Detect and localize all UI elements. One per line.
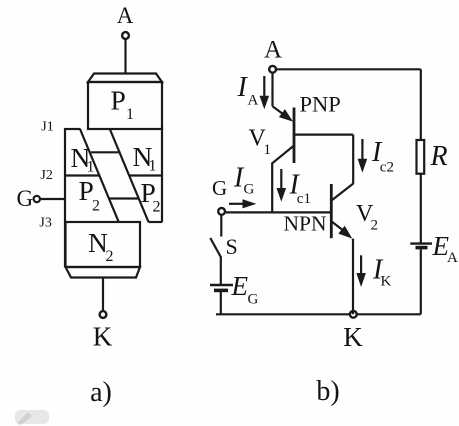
label R: [430, 141, 448, 172]
svg-text:2: 2: [106, 248, 114, 265]
svg-text:K: K: [93, 322, 113, 352]
junction J2 line right: [130, 174, 162, 176]
wire G to switch: [220, 215, 222, 236]
node A label (fig a): [117, 3, 134, 28]
middle section top-left edge: [65, 128, 81, 130]
svg-text:J3: J3: [39, 216, 51, 231]
svg-text:A: A: [248, 92, 259, 108]
caption b): [316, 376, 339, 407]
node G label (fig a): [17, 186, 34, 211]
svg-text:A: A: [264, 37, 282, 64]
terminal circle G (fig b): [218, 208, 225, 215]
svg-text:R: R: [430, 141, 448, 172]
transistor V2 base bar: [330, 184, 333, 238]
svg-text:1: 1: [264, 142, 272, 158]
junction label J2: [40, 168, 52, 183]
label N1 left: [71, 142, 95, 176]
svg-text:2: 2: [371, 218, 379, 234]
wire gate to V2 base: [226, 211, 331, 213]
label P2 right: [141, 177, 161, 216]
wire cathode lead (fig a): [102, 278, 104, 311]
svg-text:G: G: [212, 176, 227, 200]
label S: [226, 234, 238, 259]
current IG label: [233, 163, 255, 198]
label N1 right: [133, 141, 157, 175]
diagonal split line 1: [80, 129, 119, 222]
current IG arrow: [229, 199, 256, 208]
current Ic2 label: [371, 137, 394, 175]
svg-text:K: K: [381, 274, 392, 290]
resistor R: [417, 140, 425, 174]
svg-text:NPN: NPN: [284, 212, 327, 236]
caption a): [90, 377, 112, 408]
wire V1 base to V2 collector: [352, 135, 354, 184]
current IK arrow: [356, 255, 366, 287]
label EG: [231, 271, 259, 308]
layer N2 box: [66, 222, 141, 267]
V2 emitter with arrow: [331, 221, 352, 238]
V1 emitter wire from A: [273, 73, 294, 122]
diagonal split line 2: [110, 129, 149, 222]
right column bottom edge: [149, 221, 162, 223]
current IA label: [237, 72, 259, 108]
switch S blade: [210, 238, 221, 257]
battery EA long plate: [410, 242, 432, 244]
wire gate lead (fig a): [40, 198, 65, 200]
battery EA short plate: [416, 246, 428, 250]
terminal circle A (fig b): [269, 66, 276, 73]
svg-text:G: G: [248, 292, 259, 308]
label V2: [356, 201, 378, 234]
wire switch to battery: [220, 257, 222, 286]
svg-text:P: P: [111, 85, 126, 116]
svg-text:2: 2: [153, 199, 161, 216]
current IA arrow: [260, 76, 270, 109]
svg-text:A: A: [447, 250, 458, 266]
junction J2 line left: [65, 174, 100, 176]
svg-text:c2: c2: [380, 159, 394, 175]
node K label (fig a): [93, 322, 113, 352]
node K label (fig b): [343, 322, 363, 352]
current Ic2 arrow: [358, 139, 368, 173]
svg-text:A: A: [117, 3, 134, 28]
label N2: [88, 227, 114, 265]
junction label J1: [41, 120, 53, 135]
terminal circle G (fig a): [34, 196, 40, 202]
svg-text:b): b): [316, 376, 339, 407]
label P1: [111, 85, 135, 124]
V1 base wire: [294, 134, 353, 136]
wire right rail middle: [420, 174, 422, 243]
svg-text:J2: J2: [40, 168, 52, 183]
middle section right edge: [161, 128, 163, 223]
svg-text:2: 2: [92, 198, 100, 215]
svg-text:G: G: [17, 186, 34, 211]
svg-text:E: E: [231, 271, 249, 301]
anode contact electrode: [88, 74, 162, 83]
node A label (fig b): [264, 37, 282, 64]
label V1: [249, 126, 272, 159]
label PNP: [300, 91, 341, 116]
layer P1 box: [88, 82, 162, 129]
current IK label: [372, 255, 392, 290]
battery EG short plate: [214, 289, 228, 293]
label NPN: [284, 212, 327, 236]
svg-text:1: 1: [149, 158, 157, 175]
node G label (fig b): [212, 176, 227, 200]
node K circle (fig b): [350, 311, 357, 318]
V2 collector diagonal: [331, 184, 353, 201]
svg-text:PNP: PNP: [300, 91, 341, 116]
label EA: [432, 231, 459, 266]
cathode contact electrode: [66, 267, 141, 278]
transistor V1 base bar: [293, 108, 296, 164]
V1 collector vertical wire: [271, 163, 273, 213]
wire right rail lower: [420, 249, 422, 314]
terminal circle A (fig a): [122, 32, 129, 39]
svg-text:c1: c1: [297, 191, 311, 207]
svg-text:K: K: [343, 322, 363, 352]
wire EG to bus: [220, 291, 222, 314]
V2 emitter vertical wire: [352, 239, 354, 315]
terminal circle K (fig a): [100, 311, 107, 318]
current Ic1 arrow: [277, 169, 287, 202]
svg-text:G: G: [244, 182, 255, 198]
svg-text:S: S: [226, 234, 238, 259]
svg-text:1: 1: [126, 106, 134, 123]
middle section left edge: [64, 128, 66, 267]
wire A to right rail: [277, 68, 421, 70]
band divider upper: [91, 151, 121, 153]
label P2 left: [79, 175, 101, 215]
band divider lower: [110, 197, 140, 199]
battery EG long plate: [210, 284, 233, 286]
watermark smudge: [15, 410, 49, 425]
svg-text:1: 1: [87, 159, 95, 176]
bottom bus wire: [216, 313, 421, 315]
current Ic1 label: [289, 170, 311, 207]
svg-text:a): a): [90, 377, 112, 408]
junction label J3: [39, 216, 51, 231]
svg-text:J1: J1: [41, 120, 53, 135]
wire right rail upper: [420, 69, 422, 140]
V1 collector diagonal: [272, 146, 294, 164]
wire anode lead (fig a): [124, 40, 126, 74]
